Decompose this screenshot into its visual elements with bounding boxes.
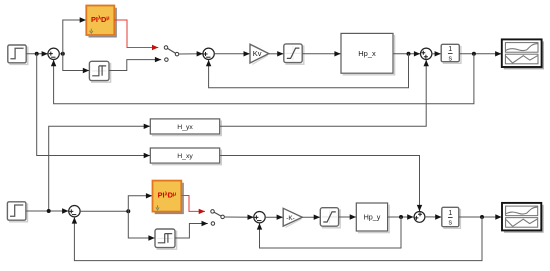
wire node A down to H_xy input xyxy=(37,54,150,158)
red wire: PID1 output to switch SW1 upper input xyxy=(114,20,158,50)
red wire: PID2 output to switch SW2 upper input xyxy=(181,196,205,215)
wire integrator y output to scope Scope_y xyxy=(459,214,502,219)
node H: y output tap xyxy=(480,215,484,219)
wire H_xy output to sum3y plus input xyxy=(220,156,423,212)
wire Step_x output to sum1x xyxy=(26,51,48,56)
svg-text:-K-: -K- xyxy=(286,215,295,222)
wire Sat1 output to plant Hp_x xyxy=(302,51,341,56)
fractional-order PID controller PID2 xyxy=(153,181,184,214)
node F: error branch (bottom loop) xyxy=(126,209,130,213)
svg-text:Hp_y: Hp_y xyxy=(364,213,381,222)
wire node B up to PID1 input xyxy=(63,17,86,54)
integrator block 1/s (x) xyxy=(441,44,461,63)
wire sum3y output to integrator 1/s (y) xyxy=(425,214,442,219)
plant transfer function Hp_x xyxy=(341,33,395,74)
saturation block Sat2 xyxy=(320,208,340,228)
node G: Hp_y output tap xyxy=(399,215,403,219)
step source Step_x xyxy=(8,45,28,64)
svg-text:1: 1 xyxy=(448,210,452,217)
manual switch SW1 xyxy=(164,46,179,62)
step source Step_y xyxy=(7,202,27,222)
wire Sat2 output to plant Hp_y xyxy=(339,214,356,219)
wire sum2y output to gain -K- xyxy=(265,215,283,220)
wire H_yx output to sum3x plus input xyxy=(220,60,429,126)
node B: error branch (top loop) xyxy=(61,52,65,56)
wire SW1 output to sum2x xyxy=(179,51,203,56)
scope Scope_y xyxy=(502,203,543,232)
sum junction sum3y (+/+) xyxy=(414,212,425,223)
wire Relay1 output to switch SW1 lower input xyxy=(109,57,161,71)
integrator block 1/s (y) xyxy=(442,207,461,228)
node C: Hp_x output tap xyxy=(407,52,411,56)
wire node E up to H_yx input xyxy=(49,124,150,211)
wire sum2x output to gain Kv xyxy=(214,51,250,56)
wire Step_y output to sum1y xyxy=(26,208,69,213)
sum junction sum1x (+/-) xyxy=(48,48,59,59)
svg-text:s: s xyxy=(449,220,453,227)
inner feedback wire: node C to sum2x minus input xyxy=(206,54,409,88)
wire integrator x output to scope Scope_x xyxy=(459,51,501,56)
sum junction sum2y (+/-) xyxy=(254,212,265,223)
wire node F up to PID2 input xyxy=(128,193,152,211)
node E: Step_y output tap xyxy=(47,209,51,213)
svg-text:Hp_x: Hp_x xyxy=(358,49,376,58)
wire sum1y output to error branch node xyxy=(80,210,128,212)
outer feedback wire: node H to sum1y minus input xyxy=(72,217,482,261)
wire sum3x output to integrator 1/s (x) xyxy=(432,51,441,56)
inner feedback wire: node G to sum2y minus input xyxy=(257,217,401,248)
manual switch SW2 xyxy=(211,210,225,226)
gain -K- xyxy=(283,208,302,227)
wire Relay2 output to switch SW2 lower input xyxy=(175,221,208,238)
saturation block Sat1 xyxy=(284,44,304,64)
sum junction sum1y (+/-) xyxy=(69,206,80,217)
svg-text:1: 1 xyxy=(448,46,452,53)
wire node B down to relay Relay1 input xyxy=(63,54,89,73)
coupling transfer function H_yx xyxy=(150,119,221,136)
coupling transfer function H_xy xyxy=(150,148,221,165)
gain Kv xyxy=(250,44,269,64)
wire gain -K- output to saturation Sat2 xyxy=(302,215,320,220)
svg-text:H_yx: H_yx xyxy=(177,124,193,131)
wire SW2 output to sum2y xyxy=(225,215,254,220)
node A: Step_x output tap xyxy=(35,52,39,56)
scope Scope_x xyxy=(502,39,543,68)
wire sum1x output to error branch node xyxy=(59,53,63,55)
outer feedback wire: node D to sum1x minus input xyxy=(51,54,474,104)
relay Relay1 xyxy=(89,61,110,82)
wire Kv output to saturation Sat1 xyxy=(269,51,284,56)
wire Hp_x output to sum3x xyxy=(393,51,420,56)
plant transfer function Hp_y xyxy=(356,203,389,233)
fractional-order PID controller PID1 xyxy=(86,6,116,37)
svg-text:Kv: Kv xyxy=(253,49,262,58)
svg-text:s: s xyxy=(449,56,453,63)
wire node F down to relay Relay2 input xyxy=(128,211,154,241)
svg-text:H_xy: H_xy xyxy=(177,153,193,160)
sum junction sum3x (+/+) xyxy=(421,48,432,59)
relay Relay2 xyxy=(155,229,177,249)
wire Hp_y output to sum3y xyxy=(388,214,414,219)
node D: x output tap xyxy=(472,52,476,56)
sum junction sum2x (+/-) xyxy=(203,48,214,59)
